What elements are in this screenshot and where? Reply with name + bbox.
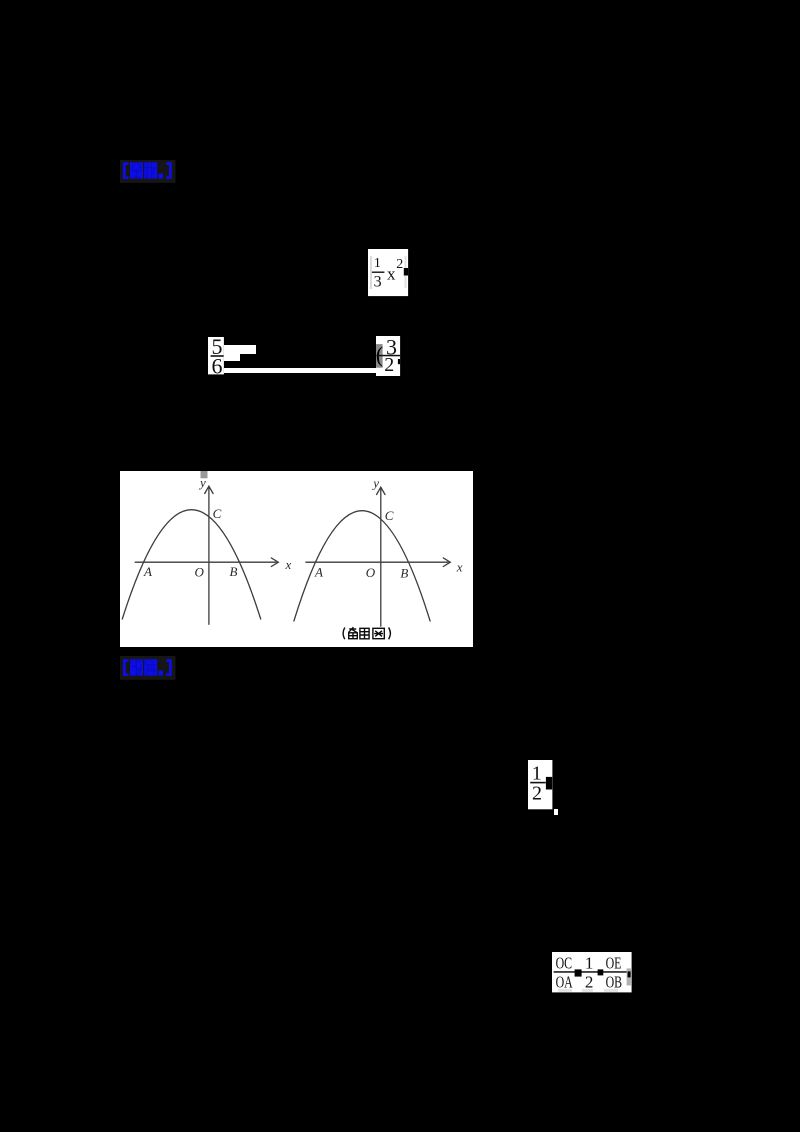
svg-text:1: 1 [374, 255, 381, 270]
svg-text:y: y [371, 476, 379, 491]
svg-text:y: y [198, 475, 206, 490]
svg-text:A: A [143, 564, 152, 579]
svg-text:OE: OE [606, 954, 622, 973]
svg-text:x: x [387, 264, 396, 283]
svg-text:A: A [314, 565, 323, 580]
svg-text:3: 3 [374, 273, 382, 290]
svg-text:B: B [229, 564, 237, 579]
svg-text:C: C [212, 506, 221, 521]
svg-text:O: O [194, 565, 204, 580]
svg-text:OC: OC [556, 954, 573, 973]
svg-text:O: O [365, 565, 375, 580]
svg-text:2: 2 [532, 782, 542, 804]
svg-text:x: x [284, 557, 291, 572]
svg-text:2: 2 [585, 972, 594, 991]
svg-text:(: ( [376, 342, 383, 367]
svg-text:B: B [400, 566, 408, 581]
svg-text:2: 2 [384, 354, 394, 376]
svg-text:C: C [384, 508, 393, 523]
svg-text:2: 2 [396, 257, 403, 272]
svg-text:x: x [455, 560, 462, 575]
svg-text:1: 1 [585, 953, 594, 972]
